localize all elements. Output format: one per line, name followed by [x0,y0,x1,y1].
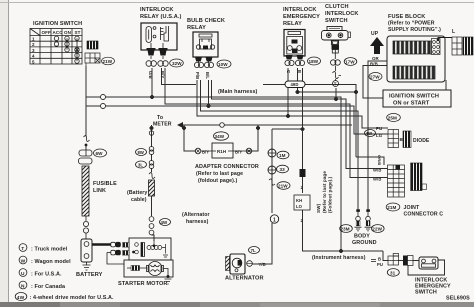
svg-text:BATTERY: BATTERY [76,272,103,278]
svg-text:3: 3 [32,48,35,53]
svg-text:6W: 6W [96,151,104,156]
svg-text:: Wagon model: : Wagon model [31,259,71,265]
svg-text:21W: 21W [103,59,113,64]
svg-text:CONNECTOR C: CONNECTOR C [404,212,444,218]
svg-text:(Battery: (Battery [127,190,147,196]
svg-text:GROUND: GROUND [352,240,377,246]
svg-text:ON or START: ON or START [393,101,430,107]
svg-text:SWITCH: SWITCH [325,18,348,24]
svg-text:IGNITION SWITCH: IGNITION SWITCH [33,21,82,27]
svg-text:3L: 3L [138,163,143,168]
svg-text:4: 4 [32,54,35,59]
svg-text:LINK: LINK [93,188,106,194]
svg-text:DIODE: DIODE [413,138,430,144]
svg-text:U: U [21,271,25,277]
svg-text:1: 1 [32,37,35,42]
svg-text:JOINT: JOINT [404,205,421,211]
svg-text:INTERLOCK: INTERLOCK [140,7,174,13]
svg-text:UP: UP [371,31,379,37]
svg-text:(Refer to “POWER: (Refer to “POWER [388,21,435,27]
svg-text:1: 1 [273,218,276,224]
svg-text:PU: PU [376,126,382,131]
svg-text:To: To [157,115,163,121]
svg-text:Y/B: Y/B [259,262,266,267]
svg-text:2: 2 [301,218,304,223]
svg-text:4W: 4W [366,131,374,136]
svg-text:8W: 8W [138,150,144,155]
svg-text:L: L [452,29,455,35]
svg-text:1M: 1M [279,153,286,158]
svg-text:PU: PU [377,262,383,267]
svg-text:10W: 10W [218,62,228,67]
svg-text:R/B: R/B [370,62,378,67]
svg-text:: Truck model: : Truck model [31,247,68,253]
svg-text:OR: OR [372,56,380,61]
svg-text:18W: 18W [309,59,319,64]
svg-text:7L: 7L [251,248,257,253]
svg-text:LG: LG [376,133,383,138]
svg-text:KH: KH [296,198,302,203]
svg-text:P/B: P/B [195,72,200,79]
svg-text:21M: 21M [387,205,396,210]
svg-text:ALTERNATOR: ALTERNATOR [225,276,264,282]
svg-text:W: W [21,259,26,265]
svg-text:W/B: W/B [373,168,381,173]
svg-text:harness): harness) [186,219,209,225]
svg-text:32W: 32W [172,61,182,66]
svg-text:BODY: BODY [354,234,370,240]
svg-text:SWITCH: SWITCH [415,290,437,296]
svg-text:23M: 23M [341,227,350,232]
svg-text:SW): SW) [316,203,321,213]
svg-text:17W: 17W [345,60,355,65]
svg-text:RELAY: RELAY [283,21,302,27]
svg-text:49D: 49D [291,82,299,87]
svg-text:R1H: R1H [217,149,226,154]
svg-text:B/Y: B/Y [235,150,242,155]
svg-text:B: B [297,70,302,73]
svg-text:OFF: OFF [42,30,51,35]
svg-text:G/B: G/B [148,71,153,79]
svg-text:ACC: ACC [53,30,64,35]
svg-text:STARTER MOTOR: STARTER MOTOR [118,281,168,287]
svg-text:4W: 4W [17,295,25,301]
svg-text:31: 31 [390,271,396,276]
svg-text:4W: 4W [161,220,169,225]
svg-text:ST: ST [75,30,81,35]
svg-text:34W: 34W [215,134,225,139]
svg-text:SEL690S: SEL690S [446,296,470,302]
svg-text:METER: METER [153,122,172,128]
svg-text:G: G [286,70,291,73]
svg-text:5: 5 [32,59,35,64]
svg-text:27W: 27W [370,75,380,80]
svg-text:(Instrument harness): (Instrument harness) [312,255,366,261]
svg-text:BULB CHECK: BULB CHECK [187,18,225,24]
svg-text:B: B [378,257,381,262]
svg-text:cable): cable) [131,197,147,203]
svg-text:(Refer to last page: (Refer to last page [322,171,327,213]
svg-text:21W: 21W [278,184,288,189]
svg-text:(Main harness): (Main harness) [218,89,258,95]
svg-text:ADAPTER CONNECTOR: ADAPTER CONNECTOR [195,164,259,170]
svg-text:ON: ON [64,30,71,35]
svg-text:RELAY: RELAY [187,25,206,31]
svg-text:B/Y: B/Y [160,71,165,78]
svg-text:33: 33 [280,167,286,172]
svg-text:2: 2 [301,185,304,190]
svg-text:W/B: W/B [373,177,381,182]
svg-text:INTERLOCK: INTERLOCK [325,11,359,17]
svg-text:(foldout page).): (foldout page).) [198,178,238,184]
svg-text:T: T [334,82,337,87]
svg-text:INTERLOCK: INTERLOCK [283,7,317,13]
svg-text:T: T [21,246,24,252]
svg-text:RELAY (U.S.A.): RELAY (U.S.A.) [140,14,182,20]
svg-text:SUPPLY ROUTING”.): SUPPLY ROUTING”.) [388,27,441,33]
svg-text:: 4-wheel drive model for U.S.: : 4-wheel drive model for U.S.A. [30,295,114,301]
svg-text:(Foldout page).): (Foldout page).) [328,176,333,213]
svg-text:IGNITION SWITCH: IGNITION SWITCH [389,94,439,100]
svg-text:: For U.S.A.: : For U.S.A. [31,272,62,278]
svg-text:2: 2 [32,42,35,47]
svg-text:(Alternator: (Alternator [182,212,210,218]
svg-text:FUSIBLE: FUSIBLE [93,181,117,187]
svg-text:FUSE BLOCK: FUSE BLOCK [388,14,425,20]
svg-text:B/Y: B/Y [202,150,209,155]
svg-text:CLUTCH: CLUTCH [325,4,349,10]
svg-text:EMERGENCY: EMERGENCY [283,14,320,20]
svg-text:N: N [21,284,25,290]
svg-text:LO: LO [296,204,303,209]
svg-text:25M: 25M [388,116,397,121]
svg-text:(Refer to last page: (Refer to last page [196,171,243,177]
svg-text:B/L: B/L [205,72,210,79]
svg-text:: For Canada: : For Canada [31,284,66,290]
svg-text:22W: 22W [372,227,382,232]
